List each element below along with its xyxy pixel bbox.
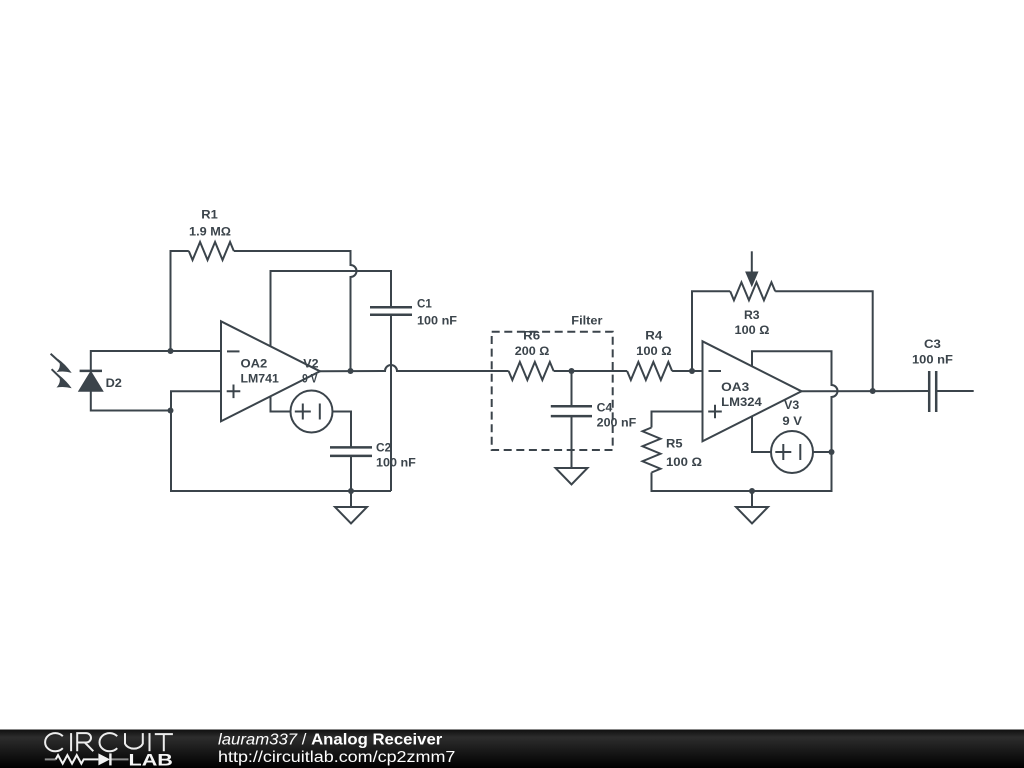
svg-text:V3: V3 (784, 400, 799, 412)
svg-text:100 Ω: 100 Ω (735, 325, 770, 337)
svg-text:C1: C1 (417, 299, 432, 311)
svg-text:C4: C4 (597, 403, 613, 415)
svg-text:D2: D2 (106, 378, 122, 390)
svg-text:9 V: 9 V (782, 416, 802, 428)
svg-text:9 V: 9 V (302, 374, 318, 386)
svg-text:C2: C2 (376, 443, 391, 455)
svg-text:R5: R5 (666, 439, 683, 451)
svg-text:R3: R3 (744, 310, 760, 322)
svg-text:100 Ω: 100 Ω (636, 346, 672, 358)
svg-text:LAB: LAB (129, 751, 173, 768)
svg-text:100 Ω: 100 Ω (666, 457, 702, 469)
svg-text:LM324: LM324 (721, 397, 762, 409)
svg-text:100 nF: 100 nF (376, 458, 416, 470)
svg-text:V2: V2 (303, 359, 318, 371)
svg-text:LM741: LM741 (241, 373, 280, 385)
svg-text:200 Ω: 200 Ω (515, 346, 550, 358)
svg-text:200 nF: 200 nF (597, 417, 637, 429)
svg-text:R4: R4 (645, 331, 663, 343)
svg-text:http://circuitlab.com/cp2zmm7: http://circuitlab.com/cp2zmm7 (218, 749, 455, 766)
svg-text:OA3: OA3 (721, 382, 749, 394)
svg-text:R1: R1 (201, 210, 218, 222)
svg-text:100 nF: 100 nF (417, 315, 457, 327)
svg-text:R6: R6 (523, 331, 540, 343)
svg-text:1.9 MΩ: 1.9 MΩ (189, 227, 231, 239)
svg-text:100 nF: 100 nF (912, 355, 953, 367)
svg-text:OA2: OA2 (241, 359, 268, 371)
svg-text:C3: C3 (924, 339, 941, 351)
svg-text:Filter: Filter (571, 316, 603, 328)
svg-text:lauram337 / Analog Receiver: lauram337 / Analog Receiver (218, 732, 442, 749)
